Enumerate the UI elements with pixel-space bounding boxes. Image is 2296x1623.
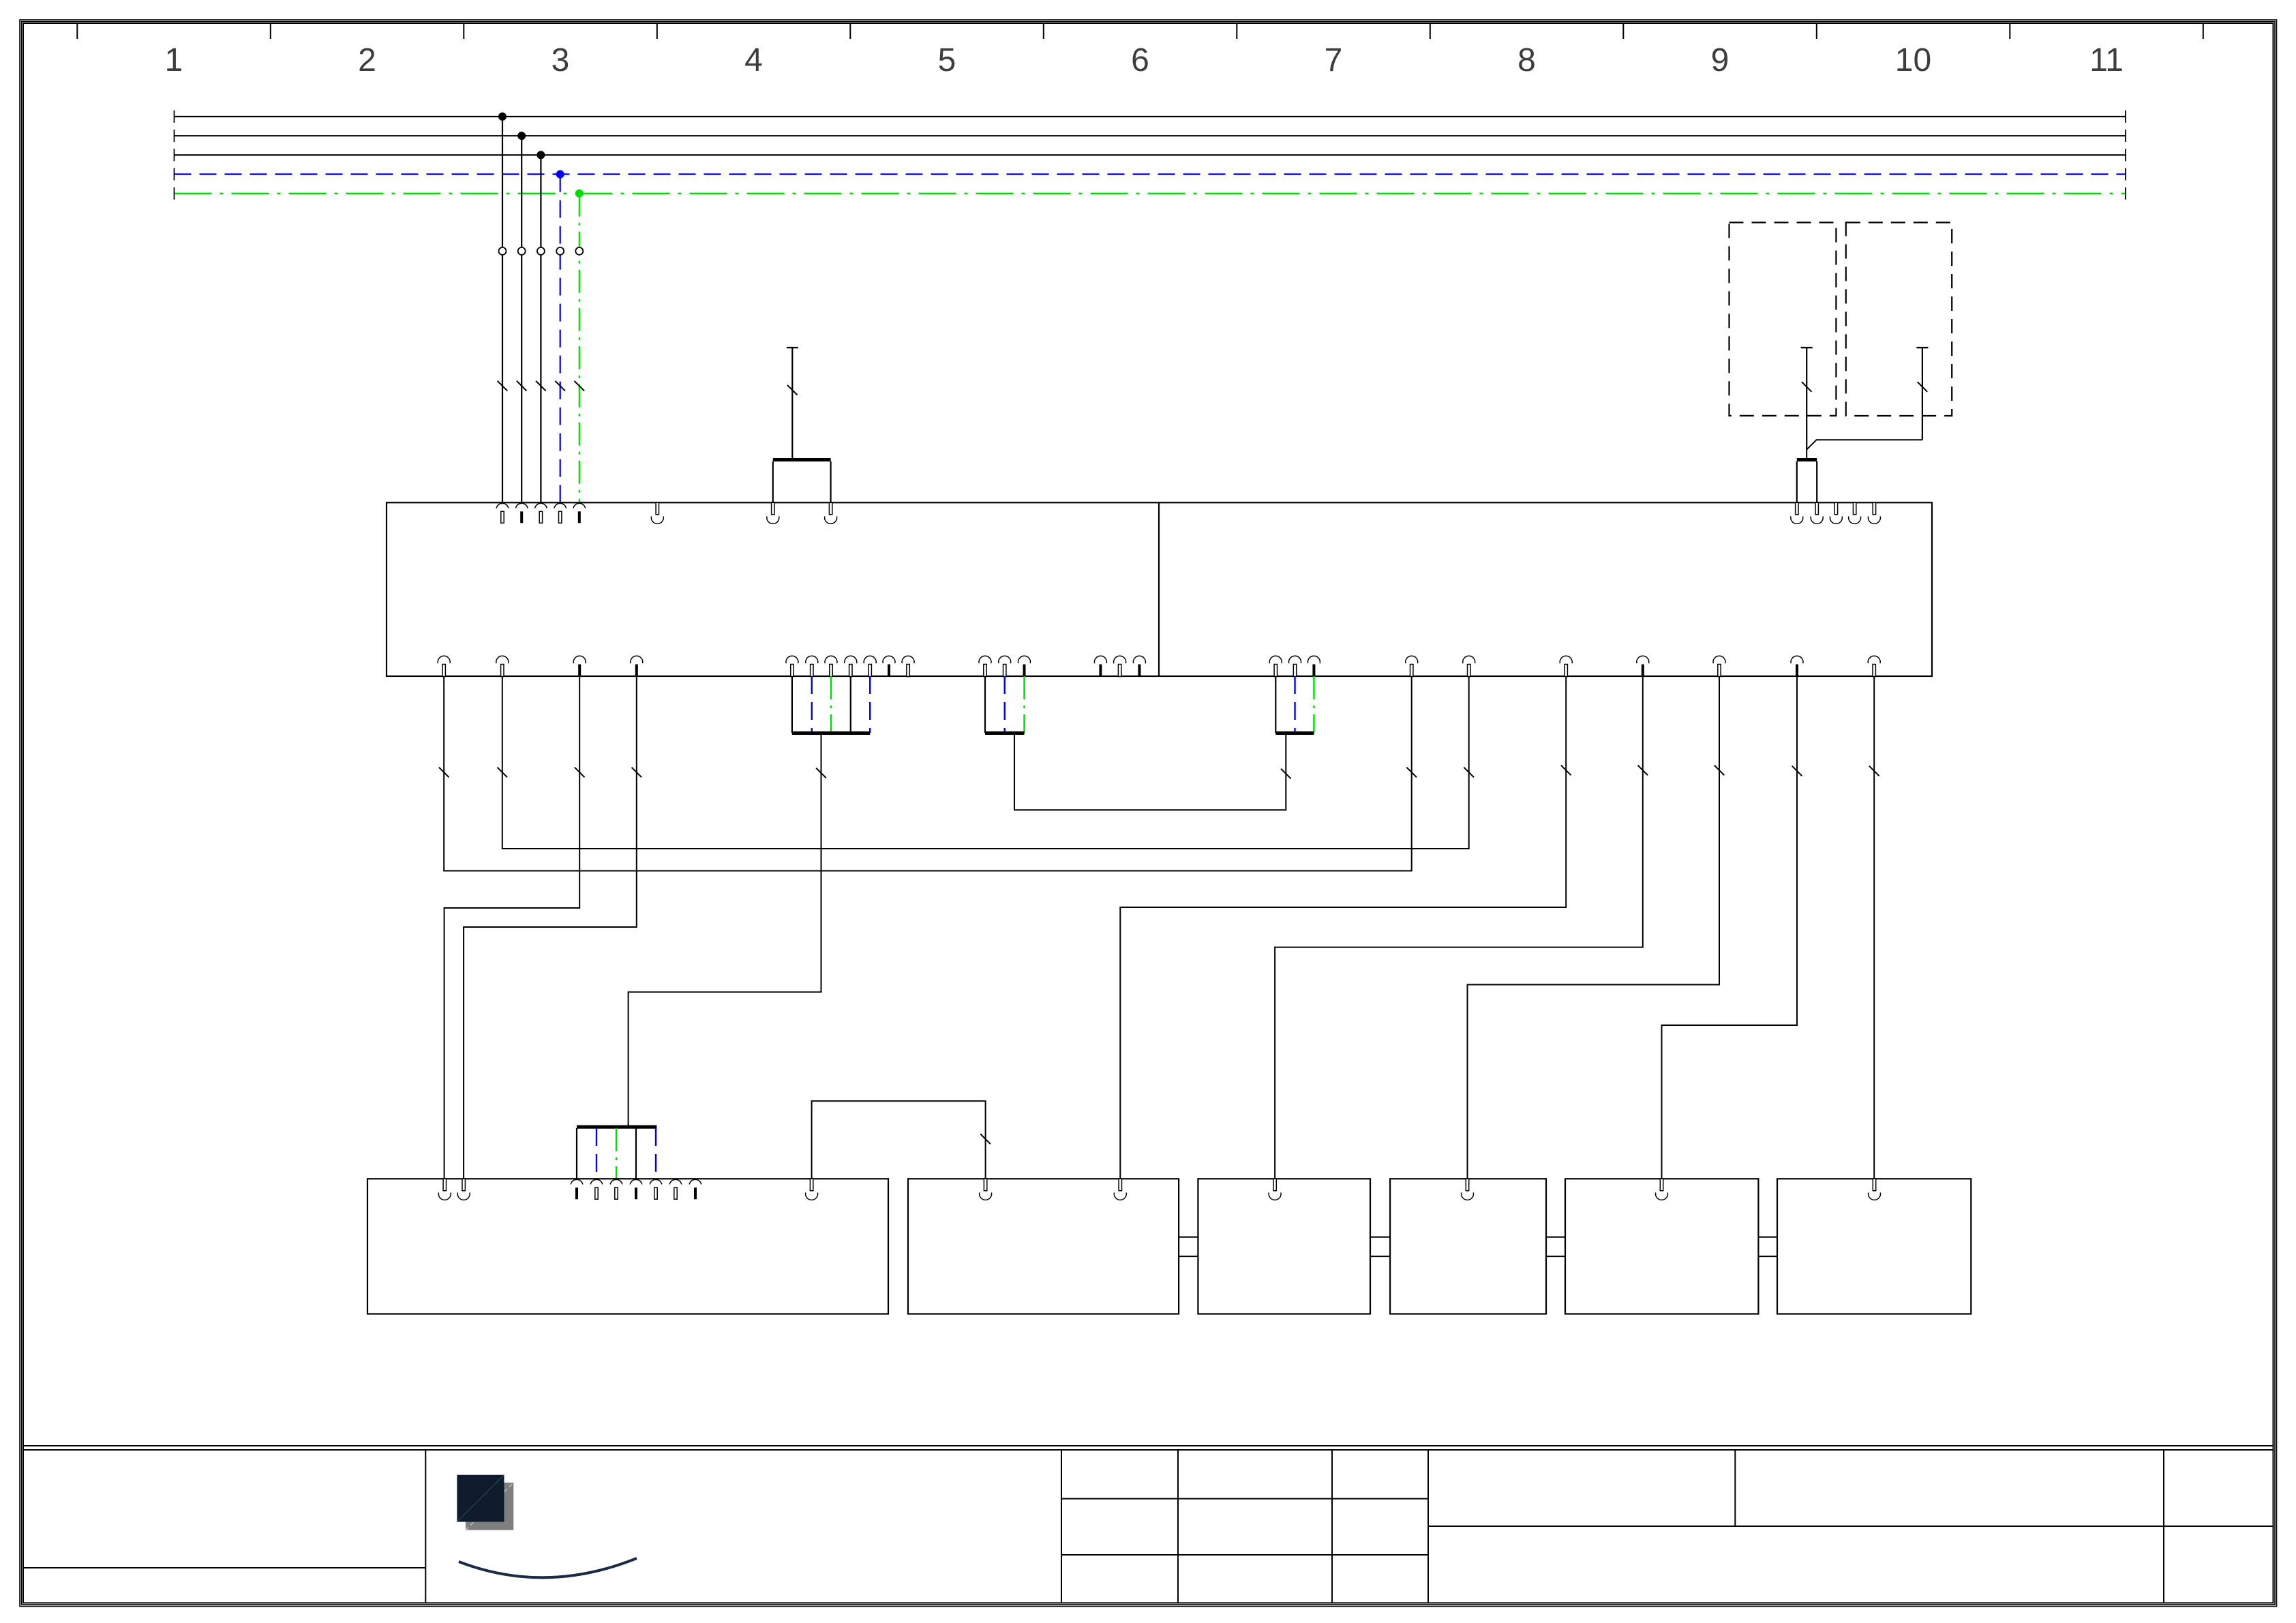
main cabinet box: [387, 502, 1932, 676]
group3 wire k (black): [1275, 676, 1276, 733]
svg-text:4: 4: [744, 42, 763, 78]
terminal socket A2: [825, 502, 837, 524]
terminal pin bottom x=2297.2: [1560, 656, 1572, 676]
terminal pin bottom x=933.8: [631, 656, 643, 676]
terminal pin bottom x=1927.4: [1308, 656, 1320, 676]
terminal pin bottom x=1332.1: [902, 656, 914, 676]
dashed enclosure box 1: [1729, 222, 1837, 416]
box1 group pin x=991: [669, 1179, 682, 1199]
group wire k2: [850, 676, 851, 733]
group2 wire pe (green): [1023, 676, 1025, 733]
open terminal circle on T1: [499, 247, 507, 255]
bus line L1: [175, 110, 2126, 123]
tap wire T4: [560, 175, 561, 503]
enclosure1 lead-in T-top: [1801, 347, 1813, 348]
terminal pin bottom x=850.2: [573, 656, 586, 676]
tap wire T2: [521, 136, 522, 502]
svg-text:7: 7: [1325, 42, 1343, 78]
junction dot on L1: [498, 112, 507, 121]
collector bar C1: [792, 731, 870, 735]
link bars between box4 and box5: [1546, 1237, 1565, 1256]
box1 drop n1 (blue): [596, 1128, 597, 1179]
box1 drop pe (green): [616, 1128, 617, 1179]
terminal pin bottom x=651.2: [438, 656, 450, 676]
terminal pin bottom x=1190.8: [806, 656, 818, 676]
box1 group pin x=933: [630, 1179, 642, 1199]
terminal socket B3: [1830, 502, 1842, 524]
terminal pin bottom x=1502.5: [1018, 656, 1031, 676]
switch on T4: [555, 381, 565, 391]
terminal socket box1 t2: [457, 1179, 470, 1200]
open terminal circle on T2: [518, 247, 526, 255]
terminal pin bottom x=1276.2: [864, 656, 876, 676]
ruler column numbers 1-11: [165, 42, 2124, 78]
terminal socket A1: [767, 502, 779, 524]
tap wire T3: [540, 155, 541, 502]
terminal pin bottom x=2409.8: [1637, 656, 1649, 676]
switch on W2 left: [498, 768, 508, 778]
consumer box 3: [1198, 1179, 1370, 1314]
terminal X1 pin at x=849.8: [573, 503, 586, 523]
svg-text:11: 11: [2089, 42, 2124, 78]
switch on T1: [498, 381, 508, 391]
consumer box 5: [1565, 1179, 1758, 1314]
svg-text:10: 10: [1895, 42, 1931, 78]
plug drop B1: [1796, 461, 1798, 502]
main cabinet divider: [1158, 502, 1160, 676]
switch on W7: [1561, 765, 1571, 776]
switch on W4: [632, 768, 642, 778]
svg-text:8: 8: [1517, 42, 1536, 78]
terminal X1 pin at x=821.7: [554, 503, 567, 523]
switch on W11: [1869, 766, 1879, 776]
wire W9 2522 to box4: [1468, 676, 1720, 1179]
dashed enclosure box 2: [1846, 222, 1952, 416]
consumer box 2: [908, 1179, 1179, 1314]
group3 wire pe (green): [1313, 676, 1314, 733]
terminal pin bottom x=1614.4: [1094, 656, 1106, 676]
consumer box 1: [367, 1179, 888, 1314]
switch on W9: [1715, 765, 1725, 776]
joining jog wire: [1807, 440, 1922, 458]
terminal pin bottom x=1219: [825, 656, 837, 676]
switch on T2: [517, 381, 527, 391]
terminal X1 pin at x=765.2: [515, 503, 528, 523]
switch on feeder: [816, 768, 826, 778]
wire W11 2749 to box6: [1873, 676, 1875, 1179]
terminal socket X2: [651, 502, 663, 524]
switch on enclosure2 wire: [1918, 382, 1928, 392]
terminal socket B5: [1868, 502, 1880, 524]
terminal pin bottom x=2749.2: [1868, 656, 1880, 676]
wire W4 933 to box1: [464, 676, 637, 1179]
switch on T5: [575, 381, 585, 391]
box1 group pin x=875: [590, 1179, 603, 1199]
ruler column ticks: [77, 23, 2203, 40]
terminal pin bottom x=1247.8: [845, 656, 857, 676]
box1 drop k2: [635, 1128, 637, 1179]
svg-text:9: 9: [1711, 42, 1729, 78]
bus line N (blue dashed): [175, 168, 2126, 181]
title block right wide row line: [1428, 1526, 2274, 1527]
terminal socket box4 t1: [1462, 1179, 1474, 1200]
wire W1 651-2070: [444, 676, 1412, 871]
terminal X1 pin at x=737: [496, 503, 509, 523]
terminal pin bottom x=1642.6: [1114, 656, 1126, 676]
junction dot on L2: [517, 132, 526, 140]
open terminal circle on T3: [537, 247, 545, 255]
link bars between box5 and box6: [1758, 1237, 1777, 1256]
group wire k1: [791, 676, 793, 733]
box1 group pin x=846: [571, 1179, 583, 1199]
U-link wire C2 to C3: [1014, 734, 1286, 810]
enclosure2 lead-in T-top: [1916, 347, 1928, 348]
wire W3 850 to box1: [444, 676, 580, 1179]
terminal socket B2: [1811, 502, 1823, 524]
svg-text:1: 1: [165, 42, 183, 78]
wire W7 2297 to box2: [1120, 676, 1566, 1179]
terminal socket box2 t2: [1114, 1179, 1126, 1200]
switch on W8: [1638, 765, 1648, 776]
plug drop A1: [772, 461, 774, 502]
junction dot on L3: [537, 151, 545, 159]
switch on enclosure1 wire: [1802, 382, 1812, 392]
title block sub-divider v: [1734, 1450, 1736, 1526]
plug drop B2: [1816, 461, 1817, 502]
switch on W2 right: [1464, 768, 1474, 778]
tap wire T1: [502, 117, 503, 502]
switch on T3: [536, 381, 546, 391]
terminal pin bottom x=1871.3: [1269, 656, 1282, 676]
box1 drop k1: [576, 1128, 577, 1179]
title block left cell row line: [23, 1567, 426, 1568]
consumer box 4: [1390, 1179, 1546, 1314]
svg-text:2: 2: [358, 42, 376, 78]
switch on W10: [1792, 766, 1802, 776]
terminal pin bottom x=1161.9: [786, 656, 798, 676]
terminal pin bottom x=1445: [979, 656, 991, 676]
box1 bar: [577, 1125, 656, 1129]
feeder wire from C1 to box1 bar: [629, 734, 821, 1126]
group3 wire n (blue): [1294, 676, 1295, 733]
title block vertical dividers: [425, 1450, 2164, 1603]
switch on W1 left: [439, 768, 449, 778]
title block top double line: [23, 1446, 2274, 1450]
terminal socket box1 t3: [806, 1179, 818, 1200]
box1 group pin x=962: [650, 1179, 662, 1199]
tap wire T5: [579, 194, 580, 503]
group2 wire n (blue): [1003, 676, 1005, 733]
junction dot on L5: [575, 189, 584, 198]
box1 group pin x=1020: [689, 1179, 701, 1199]
terminal pin bottom x=2522: [1713, 656, 1725, 676]
terminal pin bottom x=2154.7: [1463, 656, 1475, 676]
terminal pin bottom x=1473.7: [999, 656, 1011, 676]
switch on U-link: [1281, 769, 1291, 779]
bus line L3: [175, 149, 2126, 161]
plug lead-in T-top A: [787, 347, 798, 348]
group wire n2 (blue): [869, 676, 871, 733]
open terminal circle on T4: [556, 247, 564, 255]
link bars between box3 and box4: [1370, 1237, 1390, 1256]
box1 drop n2 (blue): [655, 1128, 656, 1179]
terminal socket box1 t1: [438, 1179, 451, 1200]
svg-text:6: 6: [1131, 42, 1149, 78]
collector bar C3: [1275, 731, 1314, 735]
logo swoosh arc: [459, 1558, 637, 1577]
switch on plug wire A: [787, 385, 798, 395]
svg-text:3: 3: [552, 42, 570, 78]
switch on bridge: [980, 1134, 991, 1144]
enclosure1 wire: [1806, 348, 1807, 450]
enclosure2 wire: [1922, 348, 1923, 440]
terminal pin bottom x=2636: [1791, 656, 1803, 676]
junction dot on L4: [556, 170, 564, 179]
svg-text:5: 5: [938, 42, 956, 78]
link bars between box2 and box3: [1179, 1237, 1198, 1256]
switch on W1 right: [1406, 768, 1417, 778]
wire W2 736-2154: [502, 676, 1469, 849]
terminal X1 pin at x=793.4: [535, 503, 547, 523]
terminal pin bottom x=1671.4: [1133, 656, 1145, 676]
terminal socket box3 t1: [1269, 1179, 1281, 1200]
terminal pin bottom x=2070.7: [1406, 656, 1418, 676]
group2 wire k (black): [984, 676, 986, 733]
terminal socket box5 t1: [1656, 1179, 1668, 1200]
logo gray square: [466, 1483, 513, 1530]
plug bar B: [1797, 458, 1817, 461]
bus line PE (green dash-dot): [175, 187, 2126, 200]
open terminal circle on T5: [575, 247, 583, 255]
bridge wire box1 to box2: [812, 1101, 986, 1179]
plug wire A: [791, 348, 793, 458]
group wire n1 (blue): [811, 676, 813, 733]
plug drop A2: [830, 461, 831, 502]
group wire pe1 (green): [830, 676, 832, 733]
terminal pin bottom x=1899.5: [1289, 656, 1301, 676]
bus line L2: [175, 130, 2126, 142]
switch on W3: [575, 768, 585, 778]
box1 group pin x=904: [610, 1179, 622, 1199]
wire W8 2409 to box3: [1275, 676, 1643, 1179]
terminal socket box2 t1: [980, 1179, 992, 1200]
title block 3col row lines: [1061, 1499, 1428, 1555]
logo navy square: [457, 1475, 504, 1522]
terminal socket box6 t1: [1869, 1179, 1881, 1200]
consumer box 6: [1777, 1179, 1971, 1314]
terminal pin bottom x=736.8: [496, 656, 509, 676]
wire W10 2636 to box5: [1662, 676, 1798, 1179]
terminal pin bottom x=1304: [883, 656, 895, 676]
terminal socket B1: [1791, 502, 1803, 524]
collector bar C2: [985, 731, 1025, 735]
plug bar A: [773, 458, 831, 461]
terminal socket B4: [1849, 502, 1861, 524]
